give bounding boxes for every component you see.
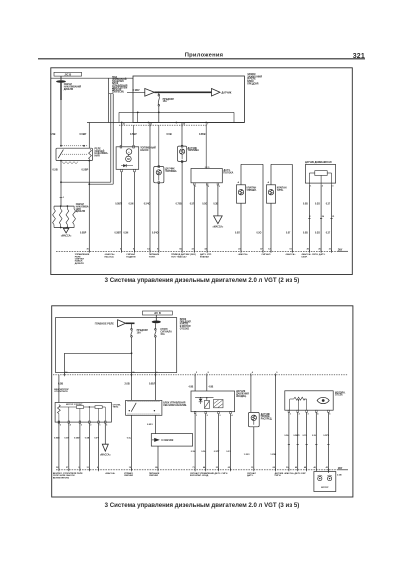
middle dashed bus diag2 xyxy=(53,374,348,376)
sensor B4 box right xyxy=(191,169,222,183)
svg-text:1.25Ч: 1.25Ч xyxy=(244,454,250,456)
header rule xyxy=(38,58,365,60)
harness wire 1 bend left xyxy=(61,181,111,183)
svg-text:0.5ЧО: 0.5ЧО xyxy=(152,232,159,234)
svg-text:ДАТЧИК ДВИЖЕНИЯ К/С: ДАТЧИК ДВИЖЕНИЯ К/С xyxy=(305,161,332,164)
svg-text:ДАТЧИК: ДАТЧИК xyxy=(222,91,232,94)
unit variable element xyxy=(204,401,209,409)
VGT resistor rails xyxy=(290,398,294,400)
svg-text:4: 4 xyxy=(252,371,254,374)
svg-text:К ЭБУ: К ЭБУ xyxy=(133,89,141,92)
strip pins diag2 xyxy=(58,468,60,471)
svg-text:4: 4 xyxy=(70,424,72,427)
svg-text:4: 4 xyxy=(231,414,233,417)
svg-text:(ЭБУ/ECM): (ЭБУ/ECM) xyxy=(112,92,124,94)
svg-text:0.3О: 0.3О xyxy=(315,232,320,234)
svg-text:0.3Ч: 0.3Ч xyxy=(226,451,231,453)
VGT resistor zigzag xyxy=(294,397,306,400)
svg-text:2: 2 xyxy=(207,415,209,417)
VGT pins xyxy=(288,410,290,412)
wire blower coil down xyxy=(58,421,60,470)
svg-text:0.5Л: 0.5Л xyxy=(235,232,240,234)
svg-text:0.5ВР: 0.5ВР xyxy=(80,232,87,234)
glow control relay box xyxy=(126,400,162,415)
svg-text:СВЕЧЕЙ: СВЕЧЕЙ xyxy=(124,474,133,477)
unit hatched resistor xyxy=(214,399,224,407)
svg-text:5: 5 xyxy=(329,414,331,416)
svg-text:3.5В: 3.5В xyxy=(337,474,342,476)
svg-text:2.0В: 2.0В xyxy=(125,382,130,385)
svg-text:0.85В: 0.85В xyxy=(199,133,206,136)
svg-text:А: А xyxy=(238,181,240,184)
strip right tail diag2 xyxy=(337,469,348,471)
svg-text:0.5Л: 0.5Л xyxy=(64,437,69,439)
branch wire left xyxy=(64,352,131,354)
dashed connector bus xyxy=(119,124,207,126)
glow control switch diagonal xyxy=(131,403,136,412)
svg-text:0.5ПГ: 0.5ПГ xyxy=(214,451,220,453)
wire bridge2 left down xyxy=(270,164,272,185)
blower resistor 1 xyxy=(76,406,83,409)
VGT inline ticks xyxy=(288,444,290,446)
svg-text:4: 4 xyxy=(317,413,319,416)
relay K1 switch diagonal xyxy=(58,150,63,159)
pump motor circle xyxy=(126,156,132,162)
svg-text:ВЕНТИЛЯТОРА: ВЕНТИЛЯТОРА xyxy=(53,476,69,479)
glow plug bank bottom rail xyxy=(54,227,74,229)
svg-text:1: 1 xyxy=(99,425,101,427)
wires bus to engine unit xyxy=(194,375,196,391)
svg-text:2: 2 xyxy=(208,186,210,188)
svg-text:10А: 10А xyxy=(137,331,142,334)
ground triangle diag1 xyxy=(63,228,68,233)
wire Y2 down xyxy=(270,203,272,251)
svg-text:EGR КЛАП. КОНД.: EGR КЛАП. КОНД. xyxy=(190,474,209,477)
svg-text:0.5ВЛ: 0.5ВЛ xyxy=(293,435,299,437)
VGT motor box xyxy=(285,391,333,410)
speed sensor pins xyxy=(308,183,310,185)
blower coil xyxy=(58,405,61,414)
bridge wire 2 xyxy=(271,163,292,165)
power box xyxy=(56,318,177,373)
svg-text:ДИЗЕЛЯ: ДИЗЕЛЯ xyxy=(64,89,74,91)
svg-text:15А: 15А xyxy=(160,333,165,336)
fuse F3 xyxy=(131,329,133,331)
ECU connector strip diag2 xyxy=(56,469,337,471)
svg-text:«МАССА»: «МАССА» xyxy=(285,253,296,256)
unit internal wire xyxy=(195,397,213,399)
blower internal wire xyxy=(59,406,77,408)
svg-text:0.5Ч: 0.5Ч xyxy=(94,437,99,439)
svg-text:0.5О: 0.5О xyxy=(202,203,207,205)
relay K1 hatch marks below xyxy=(62,162,78,164)
ECU connector pins and numbers xyxy=(88,250,90,253)
wire Y1 down xyxy=(240,203,242,251)
svg-text:15А: 15А xyxy=(163,100,168,103)
svg-text:ТОПЛИВА: ТОПЛИВА xyxy=(165,170,177,173)
svg-text:СКОР.: СКОР. xyxy=(301,256,308,258)
wire relay pin2 down long xyxy=(88,161,90,252)
svg-text:1: 1 xyxy=(310,186,312,188)
svg-text:0.3Г: 0.3Г xyxy=(326,232,331,234)
svg-text:НИЯ: НИЯ xyxy=(95,156,100,158)
svg-text:0.5Н: 0.5Н xyxy=(284,435,289,437)
svg-text:ПОДАЧИ: ПОДАЧИ xyxy=(126,255,136,258)
ignition feed connector dot xyxy=(155,315,157,321)
solenoid valve Y1 box xyxy=(237,185,246,203)
wire fuse to bus xyxy=(158,106,160,122)
wires speed sensor down xyxy=(308,185,310,252)
wire to fuse F4 xyxy=(154,323,156,328)
svg-text:2: 2 xyxy=(299,414,301,416)
svg-text:3 Система управления дизельным: 3 Система управления дизельным двигателе… xyxy=(105,277,300,284)
unit diode symbol xyxy=(199,399,203,402)
svg-text:16: 16 xyxy=(183,124,186,126)
svg-text:ПОТОКА: ПОТОКА xyxy=(224,171,234,174)
wire glow plug down xyxy=(60,100,62,146)
wire to fuse F3 xyxy=(131,323,133,328)
pump circles link xyxy=(128,154,130,156)
glow plugs feed box xyxy=(151,434,192,447)
svg-text:M: M xyxy=(127,157,130,161)
ECU strip right tail xyxy=(337,250,348,252)
wire bus to blower box xyxy=(58,375,60,403)
glow plug bank resistors xyxy=(53,209,56,225)
blower junction dot xyxy=(89,406,90,407)
svg-text:«МАССА»: «МАССА» xyxy=(61,235,72,238)
wire bus to cam sensor xyxy=(250,375,252,413)
bottom right motor box xyxy=(314,472,336,492)
inner boundary line xyxy=(51,77,133,79)
wire left vertical from inner line xyxy=(108,78,110,122)
thick signal line xyxy=(154,91,211,93)
svg-text:8: 8 xyxy=(208,372,210,374)
motor box glyph right xyxy=(328,477,332,481)
wire to connector arrow xyxy=(127,91,145,93)
blower resistor box xyxy=(55,403,111,423)
svg-text:«МАССА»: «МАССА» xyxy=(238,253,249,256)
glow plug G1 xyxy=(60,76,62,80)
svg-text:J/C B: J/C B xyxy=(154,311,161,315)
svg-text:0.3Г: 0.3Г xyxy=(326,203,331,205)
diagram 1 outer frame xyxy=(51,68,353,275)
solenoid valve Y2 box xyxy=(267,185,276,203)
svg-text:УПРАВЛ.: УПРАВЛ. xyxy=(247,189,257,192)
wires blower down xyxy=(68,423,70,470)
main bus wire xyxy=(87,122,244,124)
svg-text:ЭБУ: ЭБУ xyxy=(338,249,343,251)
svg-text:0.5В: 0.5В xyxy=(85,437,90,439)
sensor B3 box xyxy=(154,167,164,183)
harness wire 2 bend left xyxy=(89,183,113,185)
svg-text:5: 5 xyxy=(196,372,198,374)
svg-text:0.85В: 0.85В xyxy=(54,437,60,439)
wire relay to plug bank xyxy=(60,161,62,207)
svg-text:0.5Н: 0.5Н xyxy=(191,451,196,453)
wire VGT pin5 long xyxy=(327,412,329,473)
svg-text:0.5И: 0.5И xyxy=(124,232,129,234)
svg-text:0.5ВП: 0.5ВП xyxy=(115,232,122,234)
wire bridge1 right down xyxy=(262,164,264,251)
svg-text:7: 7 xyxy=(207,124,209,126)
svg-text:ОТСЕКЕ: ОТСЕКЕ xyxy=(180,328,190,330)
wires VGT down xyxy=(288,412,290,469)
svg-text:ТЕЛЬ: ТЕЛЬ xyxy=(113,407,119,409)
connector tick on bank wire xyxy=(60,196,63,198)
dashed connector row above relay xyxy=(60,145,88,147)
svg-text:ЭБУ: ЭБУ xyxy=(338,468,343,470)
connector pin ticks on dashed bus xyxy=(121,124,123,127)
svg-text:1.25В: 1.25В xyxy=(270,454,276,456)
svg-text:ДИЗЕЛЯ: ДИЗЕЛЯ xyxy=(76,211,86,213)
ECU connector strip dashed xyxy=(56,250,337,252)
bus pin ticks diag2 xyxy=(63,373,65,376)
svg-text:J/C B: J/C B xyxy=(64,72,71,76)
svg-text:1: 1 xyxy=(63,197,65,199)
svg-text:0.5L: 0.5L xyxy=(127,437,132,439)
svg-text:0.5И: 0.5И xyxy=(129,203,134,205)
wire B2 down xyxy=(181,161,183,251)
VGT motor eye symbol xyxy=(317,397,329,403)
wire bank to ground xyxy=(65,227,67,230)
svg-text:0.5ЧО: 0.5ЧО xyxy=(144,203,151,205)
fuel pump M1 box xyxy=(116,147,139,170)
inline connector ticks right xyxy=(308,218,310,220)
wire inner bus upper xyxy=(119,111,234,113)
engine unit box xyxy=(191,391,235,412)
svg-text:ДАТЧ.: ДАТЧ. xyxy=(247,474,254,477)
svg-text:«МАССА»: «МАССА» xyxy=(213,226,224,229)
speed sensor box xyxy=(305,165,335,184)
svg-text:3: 3 xyxy=(151,124,153,126)
svg-text:3: 3 xyxy=(308,414,310,416)
svg-text:0.5Ч: 0.5Ч xyxy=(303,435,308,437)
svg-text:0.5L: 0.5L xyxy=(312,435,317,437)
VGT center tap xyxy=(298,399,299,400)
svg-text:0.5БЛ: 0.5БЛ xyxy=(74,437,80,439)
wires bus to glow control xyxy=(131,375,133,401)
svg-text:ТОПЛИВА: ТОПЛИВА xyxy=(188,149,200,152)
svg-text:ГЛАВНОЕ РЕЛЕ: ГЛАВНОЕ РЕЛЕ xyxy=(95,322,115,325)
svg-text:4.0В: 4.0В xyxy=(189,386,194,389)
svg-text:СИГНАЛ: СИГНАЛ xyxy=(262,253,271,256)
svg-text:3: 3 xyxy=(219,415,221,417)
glow plug bank top rail xyxy=(54,205,74,207)
svg-text:0.5L: 0.5L xyxy=(201,451,206,453)
fuse F4 xyxy=(155,329,157,331)
wire drops from bus to components xyxy=(121,123,123,146)
speed sensor resistor xyxy=(315,171,327,176)
connector arrow A left xyxy=(145,89,155,97)
unit pins xyxy=(194,411,196,413)
wire bus risers xyxy=(118,112,120,122)
motor box glyph left xyxy=(318,477,322,481)
svg-text:0.5В: 0.5В xyxy=(167,133,172,136)
svg-text:3 Система управления дизельным: 3 Система управления дизельным двигателе… xyxy=(105,502,300,509)
svg-text:«МАССА»: «МАССА» xyxy=(100,453,111,456)
harness top bend xyxy=(109,93,114,95)
svg-text:3: 3 xyxy=(81,425,83,427)
wire B3 down xyxy=(158,183,160,252)
relay K1 coil zigzag xyxy=(89,149,92,159)
glow bank junction dots xyxy=(60,205,62,207)
wires unit down xyxy=(194,414,196,470)
fuse F1 xyxy=(158,94,160,96)
wire bus long right xyxy=(274,375,276,470)
wire pump down 1 xyxy=(121,172,123,252)
wire feed box to strip xyxy=(157,446,159,470)
connector arrow main relay xyxy=(118,320,126,327)
svg-text:0.85Л: 0.85Л xyxy=(149,382,156,385)
svg-text:0.85Ч: 0.85Ч xyxy=(147,424,153,426)
wire relay feed from bus xyxy=(88,123,90,149)
svg-text:ОТОПИТЕЛЯ: ОТОПИТЕЛЯ xyxy=(54,391,68,393)
svg-text:0.5В: 0.5В xyxy=(53,169,58,172)
svg-text:Приложения: Приложения xyxy=(185,53,224,59)
glow plug relay K1 box xyxy=(56,148,93,160)
wire F3 down and left branch xyxy=(131,337,133,375)
blower pins bottom xyxy=(58,421,60,423)
svg-text:2: 2 xyxy=(322,186,324,188)
svg-text:4.0В: 4.0В xyxy=(209,386,214,389)
big ECM box xyxy=(133,76,244,123)
svg-text:2: 2 xyxy=(90,425,92,427)
svg-text:ПОТ. «МАССА»: ПОТ. «МАССА» xyxy=(171,255,187,258)
wire glow left pin down xyxy=(131,415,133,470)
glow control dots xyxy=(129,410,130,411)
junction dots upper bus xyxy=(137,112,139,114)
sensor B4 pins xyxy=(194,183,196,185)
relay K1 internal dashed line xyxy=(60,153,88,155)
svg-text:1: 1 xyxy=(195,186,197,188)
connector label box J/C B diag2 xyxy=(143,311,173,315)
fuel sensor B2 box xyxy=(178,146,187,161)
wire bridge1 left down xyxy=(240,164,242,185)
svg-text:ТУРБ.: ТУРБ. xyxy=(277,190,284,192)
svg-text:1: 1 xyxy=(290,414,292,416)
svg-text:2: 2 xyxy=(309,216,311,218)
wires B4 down xyxy=(193,185,195,251)
wire ECU harness vertical 2 xyxy=(112,94,114,185)
pump diode symbol xyxy=(123,164,126,167)
svg-text:0.5О: 0.5О xyxy=(257,232,262,234)
svg-text:+: + xyxy=(128,150,130,154)
wire pump down 2 xyxy=(134,172,136,252)
pump pin squares top xyxy=(120,146,122,149)
svg-text:КЛАПАН: КЛАПАН xyxy=(200,255,209,258)
svg-text:КОНДИЦ.: КОНДИЦ. xyxy=(236,396,247,398)
svg-text:К СВЕЧАМ: К СВЕЧАМ xyxy=(162,439,174,442)
svg-text:НАСОСА: НАСОСА xyxy=(105,255,115,258)
svg-text:3: 3 xyxy=(332,186,334,188)
connector triangle down xyxy=(214,216,223,224)
blower resistor 2 xyxy=(95,406,102,409)
wire glow pin2 down to feed box xyxy=(154,415,156,433)
svg-text:41: 41 xyxy=(123,123,126,126)
svg-text:0.5В: 0.5В xyxy=(50,133,55,136)
svg-text:21: 21 xyxy=(332,216,335,218)
svg-text:ПРЕДОХР.: ПРЕДОХР. xyxy=(247,83,259,85)
svg-text:ОТСЕК: ОТСЕК xyxy=(335,395,343,397)
svg-text:5: 5 xyxy=(106,425,108,427)
svg-text:0.5В: 0.5В xyxy=(303,203,308,205)
thick feed line xyxy=(126,322,135,324)
svg-text:ДИЗЕЛЯ: ДИЗЕЛЯ xyxy=(75,263,84,265)
svg-text:0.5Г: 0.5Г xyxy=(286,232,291,234)
svg-text:9: 9 xyxy=(276,372,278,374)
svg-text:0.75В: 0.75В xyxy=(176,203,182,205)
svg-text:0.5Л: 0.5Л xyxy=(190,203,195,205)
connector label box J/C B xyxy=(54,72,82,76)
glow control dashed rows xyxy=(128,401,161,403)
svg-text:РАСПРЕД.: РАСПРЕД. xyxy=(261,417,273,420)
svg-text:3: 3 xyxy=(219,186,221,188)
svg-text:0.5ВР: 0.5ВР xyxy=(80,133,87,136)
camshaft sensor box xyxy=(248,412,259,426)
sensor B4 top pin tick xyxy=(205,166,208,168)
svg-text:0.5В: 0.5В xyxy=(303,232,308,234)
ground triangle diag2 xyxy=(102,444,108,451)
svg-text:0.3В: 0.3В xyxy=(213,203,218,205)
svg-text:0.5ВП: 0.5ВП xyxy=(115,203,122,205)
wire ECU harness vertical 1 xyxy=(110,94,112,183)
connector arrow B right xyxy=(212,89,221,97)
wire blower to ground xyxy=(104,423,106,444)
svg-text:0.5РЧ: 0.5РЧ xyxy=(323,435,329,437)
svg-text:0.3О: 0.3О xyxy=(315,203,320,205)
relay K1 junction dots xyxy=(60,145,62,147)
svg-text:0.5ВР: 0.5ВР xyxy=(82,169,89,172)
svg-text:1: 1 xyxy=(196,415,198,417)
svg-text:«МАССА»: «МАССА» xyxy=(105,472,116,475)
svg-text:26: 26 xyxy=(322,216,325,218)
bridge wire 1 xyxy=(241,163,263,165)
svg-text:ТОПЛ.: ТОПЛ. xyxy=(149,256,156,258)
wire cam down xyxy=(253,427,255,470)
bus junction dots xyxy=(121,122,123,124)
svg-text:СИГН.: СИГН. xyxy=(275,475,282,477)
wire bridge2 right down xyxy=(291,164,293,251)
svg-text:А: А xyxy=(268,181,270,184)
pump pins bottom xyxy=(121,169,123,172)
blower internal drops xyxy=(68,407,70,421)
wire drop to fuse F1 xyxy=(158,91,160,93)
svg-text:НАСОС: НАСОС xyxy=(140,149,149,152)
svg-text:6: 6 xyxy=(60,425,62,427)
wire F4 down xyxy=(154,337,156,375)
svg-text:МОТОР: МОТОР xyxy=(321,487,329,489)
svg-text:СВЕЧЕЙ: СВЕЧЕЙ xyxy=(149,474,158,477)
diagram 2 outer frame xyxy=(52,306,353,497)
pump sensor circle xyxy=(126,149,132,155)
arrow to glow plugs xyxy=(154,438,160,442)
svg-text:СВЕЧАМИ НАКАЛИВ.: СВЕЧАМИ НАКАЛИВ. xyxy=(163,404,187,407)
